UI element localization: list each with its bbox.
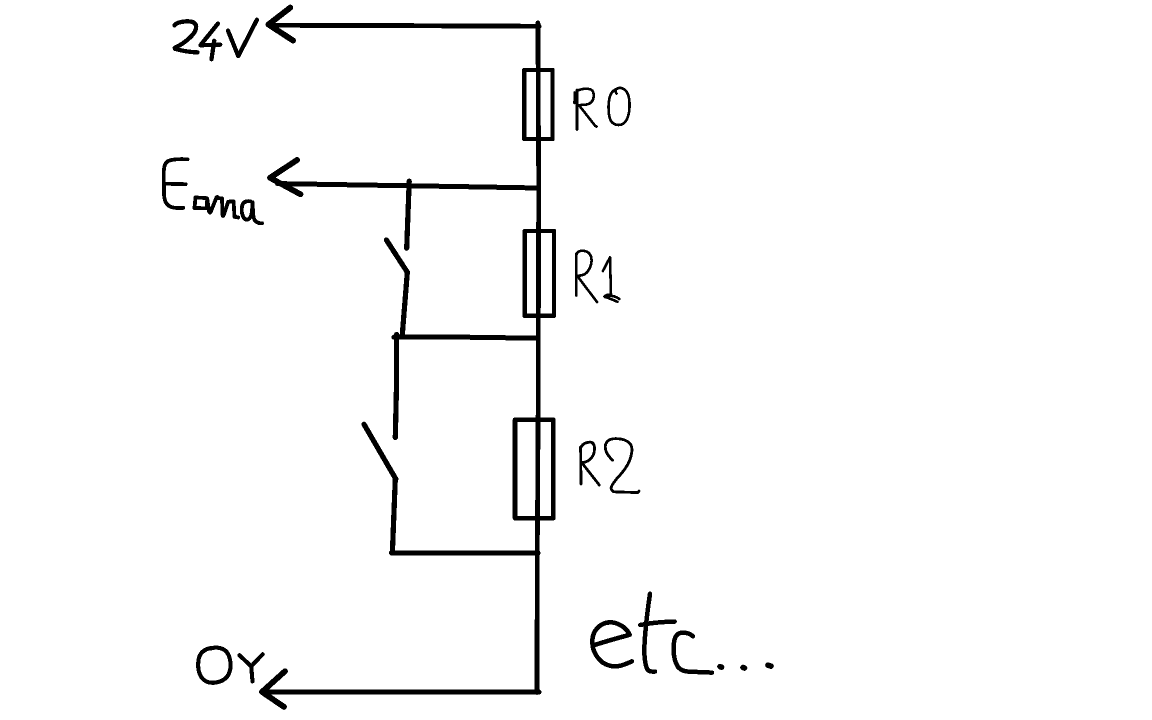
wire: junction below S2/R2 — [392, 550, 539, 555]
arrow to 0V — [262, 671, 285, 707]
label 0V — [198, 648, 262, 683]
switch S1 upper lead — [407, 181, 410, 248]
label E_ana — [164, 159, 262, 223]
wire: main vertical bus — [537, 23, 539, 693]
arrow to E_ana — [270, 160, 301, 194]
wire: 24V rail horizontal top — [271, 25, 539, 26]
label 24V — [175, 20, 257, 59]
wire: E_ana tap horizontal — [278, 184, 539, 188]
resistor R1 — [525, 231, 554, 316]
switch S1 blade — [386, 240, 407, 273]
label R2 — [581, 439, 639, 493]
arrow to 24V — [269, 8, 294, 41]
label R1 — [576, 251, 619, 302]
wire: 0V rail horizontal bottom — [265, 690, 539, 695]
label etc... — [592, 594, 771, 673]
switch S2 lower lead — [392, 479, 395, 552]
wire: junction between S1/R1 and S2/R2 — [394, 337, 538, 338]
resistor R2 — [515, 420, 553, 518]
switch S1 lower lead — [402, 273, 407, 337]
switch S2 blade — [364, 424, 396, 479]
switch S2 upper lead — [395, 335, 396, 438]
resistor R0 — [524, 70, 552, 139]
label R0 — [575, 88, 630, 130]
